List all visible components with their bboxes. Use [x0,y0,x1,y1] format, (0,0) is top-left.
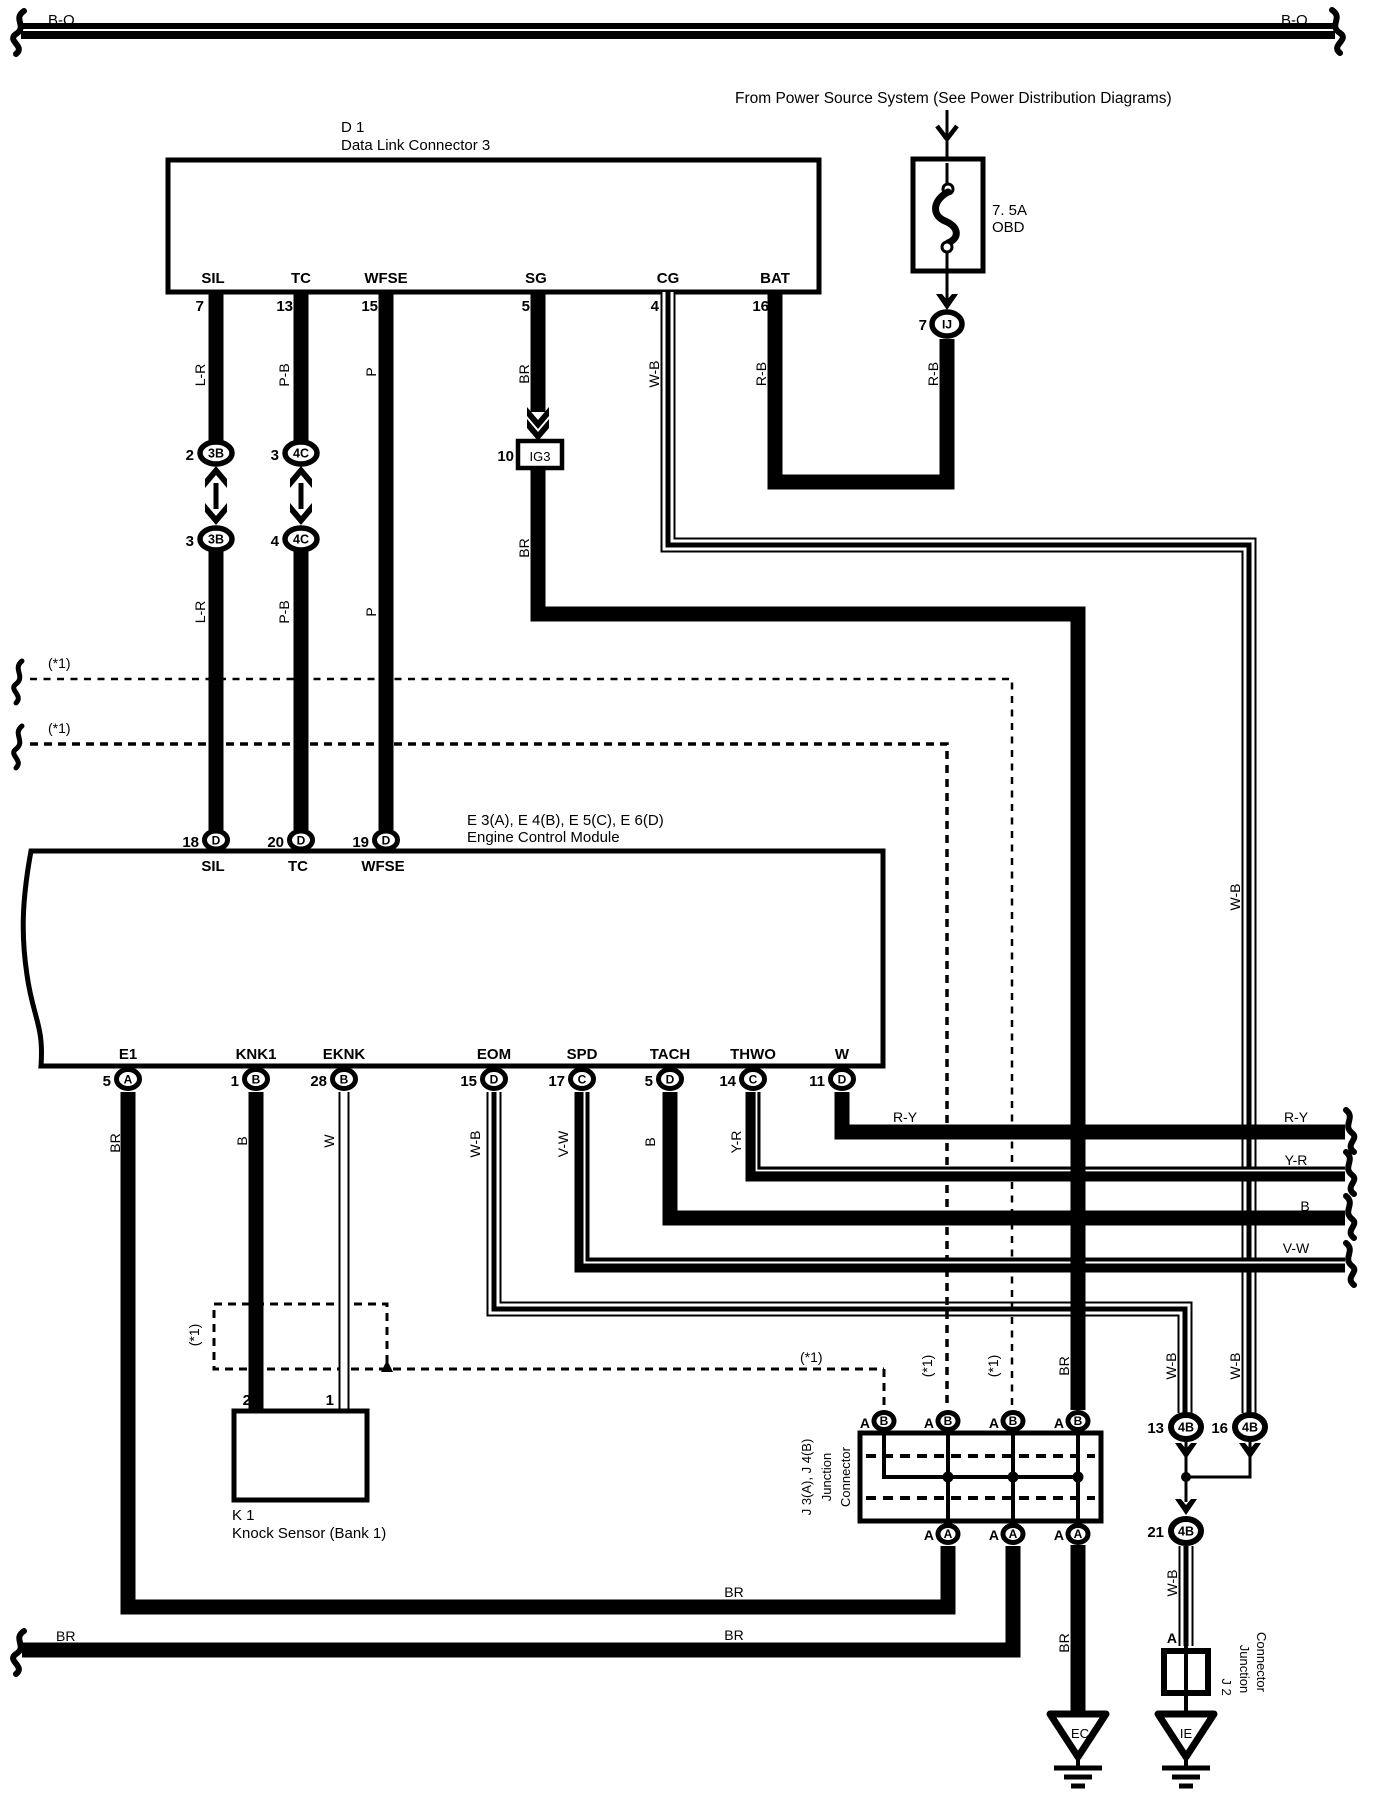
svg-text:P-B: P-B [276,363,292,386]
svg-text:B: B [234,1136,250,1145]
svg-text:A: A [860,1415,870,1431]
svg-text:E1: E1 [119,1046,137,1063]
wire BR from SG pin 5 to IG3 [531,292,546,412]
wire P-B TC upper [294,292,309,441]
svg-text:Data Link Connector 3: Data Link Connector 3 [341,137,490,154]
svg-text:KNK1: KNK1 [236,1046,277,1063]
svg-text:A: A [924,1415,934,1431]
svg-text:B: B [1009,1414,1018,1428]
svg-text:CG: CG [657,270,680,287]
svg-text:W-B: W-B [1227,884,1243,911]
svg-text:B: B [252,1073,261,1087]
svg-text:(*1): (*1) [186,1324,202,1347]
ground EC [1050,1714,1106,1786]
svg-text:WFSE: WFSE [361,858,404,875]
connector 16 4B [1235,1415,1265,1439]
svg-text:14: 14 [719,1073,736,1090]
junction connector top pin A/B x884 [874,1413,894,1430]
svg-text:5: 5 [645,1073,653,1090]
svg-text:W: W [835,1046,850,1063]
junction connector top pin A/B x1078 [1068,1413,1088,1430]
svg-text:5: 5 [103,1073,111,1090]
svg-text:BR: BR [516,538,532,557]
svg-text:4B: 4B [1178,1421,1194,1435]
svg-text:B-O: B-O [48,12,75,29]
wire W-B from CG pin 4 to connector 16 4B [668,292,1249,1413]
wire dashed (*1) shield box at knock sensor [186,1304,884,1406]
wire L-R SIL lower [209,551,224,830]
svg-text:BR: BR [1056,1356,1072,1375]
svg-text:J 3(A), J 4(B): J 3(A), J 4(B) [799,1439,814,1516]
wire Y-R from THWO pin 14 [753,1092,1345,1174]
svg-text:A: A [944,1527,953,1541]
svg-text:SG: SG [525,270,547,287]
svg-text:R-B: R-B [925,362,941,386]
connector J3(A) J4(B) Junction Connector [860,1431,1101,1526]
svg-text:EOM: EOM [477,1046,511,1063]
svg-text:3: 3 [271,447,279,464]
svg-text:K 1: K 1 [232,1507,255,1524]
svg-text:TC: TC [291,270,311,287]
wire W-B from 21 4B to J2 [1179,1546,1194,1646]
svg-text:1: 1 [231,1073,239,1090]
wire break symbol right V-W [1346,1243,1354,1285]
svg-text:WFSE: WFSE [364,270,407,287]
ECM top pin 19 WFSE [375,831,398,849]
ECU Engine Control Module E3(A) E4(B) E5(C) E6(D) [23,812,883,1066]
svg-text:P: P [363,607,379,616]
svg-text:20: 20 [267,834,284,851]
svg-text:BR: BR [56,1628,75,1644]
wire BR from IG3 to junction connector pin B [538,468,1078,1410]
svg-text:D: D [490,1073,499,1087]
svg-text:28: 28 [310,1073,327,1090]
junction connector bottom pin A/A x1013 [1003,1526,1023,1543]
sensor K1 Knock Sensor (Bank 1) [232,1392,386,1542]
svg-text:D: D [297,834,306,848]
wire arrow into IG3 [527,407,549,441]
wire B from TACH pin 5 [670,1092,1345,1218]
svg-text:D: D [212,834,221,848]
connector 3B pin 3 [200,528,232,550]
svg-text:E 3(A), E 4(B), E 5(C), E 6(D): E 3(A), E 4(B), E 5(C), E 6(D) [467,812,664,829]
svg-text:B: B [642,1137,658,1146]
svg-text:W-B: W-B [1227,1353,1243,1380]
svg-text:4C: 4C [293,533,309,547]
svg-text:BR: BR [516,364,532,383]
wire W from EKNK pin 28 to knock sensor pin 1 [339,1092,350,1411]
svg-text:BR: BR [724,1627,743,1643]
wire B from KNK1 pin 1 to knock sensor pin 2 [249,1092,264,1411]
svg-text:3B: 3B [208,533,224,547]
svg-text:1: 1 [326,1392,334,1409]
junction connector bottom pin A/A x1078 [1068,1526,1088,1543]
connector 21 4B [1171,1519,1201,1543]
svg-text:Knock Sensor (Bank 1): Knock Sensor (Bank 1) [232,1525,386,1542]
svg-text:D 1: D 1 [341,119,364,136]
connector 4C pin 4 [285,528,317,550]
svg-text:B: B [944,1414,953,1428]
svg-text:SIL: SIL [201,858,224,875]
junction connector top pin A/B x948 [938,1413,958,1430]
svg-text:7: 7 [919,317,927,334]
svg-text:B: B [340,1073,349,1087]
wire P-B TC lower [294,551,309,830]
wire arrow below 16 4B [1239,1443,1261,1459]
wire V-W from SPD pin 17 [582,1092,1345,1265]
connector IJ pin 7 [932,312,962,336]
connector D1 Data Link Connector 3 [168,119,819,315]
svg-text:P: P [363,367,379,376]
svg-text:17: 17 [548,1073,565,1090]
svg-text:18: 18 [182,834,199,851]
svg-text:15: 15 [460,1073,477,1090]
svg-text:EC: EC [1071,1726,1089,1741]
svg-text:7: 7 [196,298,204,315]
wire BR from left edge to junction connector pin A [22,1546,1013,1650]
svg-text:15: 15 [361,298,378,315]
svg-text:OBD: OBD [992,219,1025,236]
wire R-B from IJ to D1 BAT pin 16 [775,292,947,482]
junction connector bottom pin A/A x948 [938,1526,958,1543]
svg-text:21: 21 [1147,1524,1164,1541]
connector J2 Junction Connector [1164,1632,1269,1714]
ECM top pin 18 SIL [205,831,228,849]
svg-text:W: W [321,1134,337,1148]
svg-text:B: B [1074,1414,1083,1428]
svg-text:2: 2 [186,447,194,464]
svg-text:V-W: V-W [1283,1240,1310,1256]
svg-text:4C: 4C [293,447,309,461]
svg-text:3B: 3B [208,447,224,461]
svg-text:J 2: J 2 [1219,1678,1234,1695]
svg-text:R-Y: R-Y [1284,1109,1309,1125]
svg-text:Junction: Junction [1237,1645,1252,1693]
svg-text:IG3: IG3 [530,449,551,464]
svg-text:4: 4 [271,533,280,550]
svg-text:A: A [1054,1527,1064,1543]
svg-text:16: 16 [1211,1420,1228,1437]
svg-text:D: D [666,1073,675,1087]
svg-text:TACH: TACH [650,1046,691,1063]
svg-text:L-R: L-R [192,601,208,624]
svg-text:D: D [382,834,391,848]
svg-text:BR: BR [1056,1633,1072,1652]
fuse OBD 7.5A [913,159,1027,300]
svg-text:Y-R: Y-R [1285,1152,1308,1168]
svg-text:SPD: SPD [567,1046,598,1063]
wire dashed option (*1) line 2 [14,720,947,1406]
svg-text:C: C [578,1073,587,1087]
svg-text:IE: IE [1180,1726,1193,1741]
svg-text:19: 19 [352,834,369,851]
svg-text:(*1): (*1) [48,720,71,736]
wire thin links to junction dot [1186,1441,1250,1502]
svg-text:BR: BR [107,1133,123,1152]
svg-text:5: 5 [522,298,530,315]
svg-text:W-B: W-B [1164,1570,1180,1597]
wire arrow into 21 4B [1175,1499,1197,1515]
wire arrows between 3B connectors [205,466,227,525]
svg-text:BAT: BAT [760,270,790,287]
svg-text:(*1): (*1) [800,1349,823,1365]
wire BR from junction connector to EC ground [1071,1545,1086,1712]
svg-text:R-B: R-B [753,362,769,386]
wire break symbol right Y-R [1346,1152,1354,1194]
svg-text:B-O: B-O [1281,12,1308,29]
svg-text:16: 16 [752,298,769,315]
wire P WFSE [379,292,394,830]
connector 13 4B [1171,1415,1201,1439]
wire power feed into fuse [937,110,957,186]
svg-text:L-R: L-R [192,364,208,387]
svg-text:B: B [880,1414,889,1428]
connector IG3 pin 10 [497,441,562,468]
svg-text:Engine Control Module: Engine Control Module [467,829,620,846]
wire break symbol right B [1346,1196,1354,1238]
wire W-B from EOM pin 15 to connector 13 4B [494,1092,1185,1413]
svg-text:A: A [1009,1527,1018,1541]
svg-text:D: D [838,1073,847,1087]
svg-text:A: A [924,1527,934,1543]
connector 4C pin 3 [285,442,317,464]
wire fuse to connector IJ with arrow [936,294,958,310]
connector 3B pin 2 [200,442,232,464]
wire L-R SIL upper [209,292,224,441]
svg-text:THWO: THWO [730,1046,776,1063]
svg-text:A: A [1054,1415,1064,1431]
wire arrow below 13 4B [1175,1443,1197,1459]
wire R-Y from W pin 11 [842,1092,1345,1132]
svg-text:Junction: Junction [819,1453,834,1501]
junction connector top pin A/B x1013 [1003,1413,1023,1430]
svg-text:A: A [1074,1527,1083,1541]
wire BR from E1 pin 5 to junction connector pin A [128,1092,948,1607]
wire break symbol bottom left BR [13,1631,24,1674]
wire dashed option (*1) line 1 [14,655,1012,1406]
svg-text:A: A [989,1527,999,1543]
svg-text:W-B: W-B [1163,1353,1179,1380]
wire break symbol bus left [13,11,24,54]
svg-text:(*1): (*1) [985,1355,1001,1378]
svg-text:A: A [124,1073,133,1087]
svg-text:11: 11 [809,1073,825,1090]
wire break symbol bus right [1332,10,1343,53]
svg-text:From Power Source System (See: From Power Source System (See Power Dist… [735,90,1172,107]
svg-text:A: A [989,1415,999,1431]
svg-text:4B: 4B [1178,1525,1194,1539]
svg-text:V-W: V-W [555,1130,571,1157]
svg-text:13: 13 [276,298,293,315]
svg-text:(*1): (*1) [48,655,71,671]
svg-text:2: 2 [243,1392,251,1409]
svg-text:SIL: SIL [201,270,224,287]
svg-text:Connector: Connector [838,1446,853,1507]
svg-text:R-Y: R-Y [893,1109,918,1125]
svg-text:C: C [749,1073,758,1087]
svg-text:Connector: Connector [1254,1632,1269,1693]
svg-text:(*1): (*1) [919,1355,935,1378]
svg-text:4: 4 [651,298,660,315]
wire break symbol right R-Y [1346,1110,1354,1152]
svg-text:13: 13 [1147,1420,1164,1437]
ECM top pin 20 TC [290,831,313,849]
svg-text:BR: BR [724,1584,743,1600]
svg-text:10: 10 [497,448,514,465]
svg-text:TC: TC [288,858,308,875]
svg-text:W-B: W-B [646,361,662,388]
ground IE [1158,1714,1214,1786]
wire B-O top bus [21,30,1335,31]
svg-text:P-B: P-B [276,600,292,623]
svg-text:4B: 4B [1242,1421,1258,1435]
svg-text:EKNK: EKNK [323,1046,366,1063]
svg-text:3: 3 [186,533,194,550]
svg-text:A: A [1167,1630,1177,1646]
svg-text:IJ: IJ [942,318,952,332]
svg-text:W-B: W-B [467,1131,483,1158]
svg-text:7. 5A: 7. 5A [992,202,1027,219]
svg-text:B: B [1300,1198,1309,1214]
wire arrows between 4C connectors [290,466,312,525]
svg-text:Y-R: Y-R [728,1131,744,1154]
